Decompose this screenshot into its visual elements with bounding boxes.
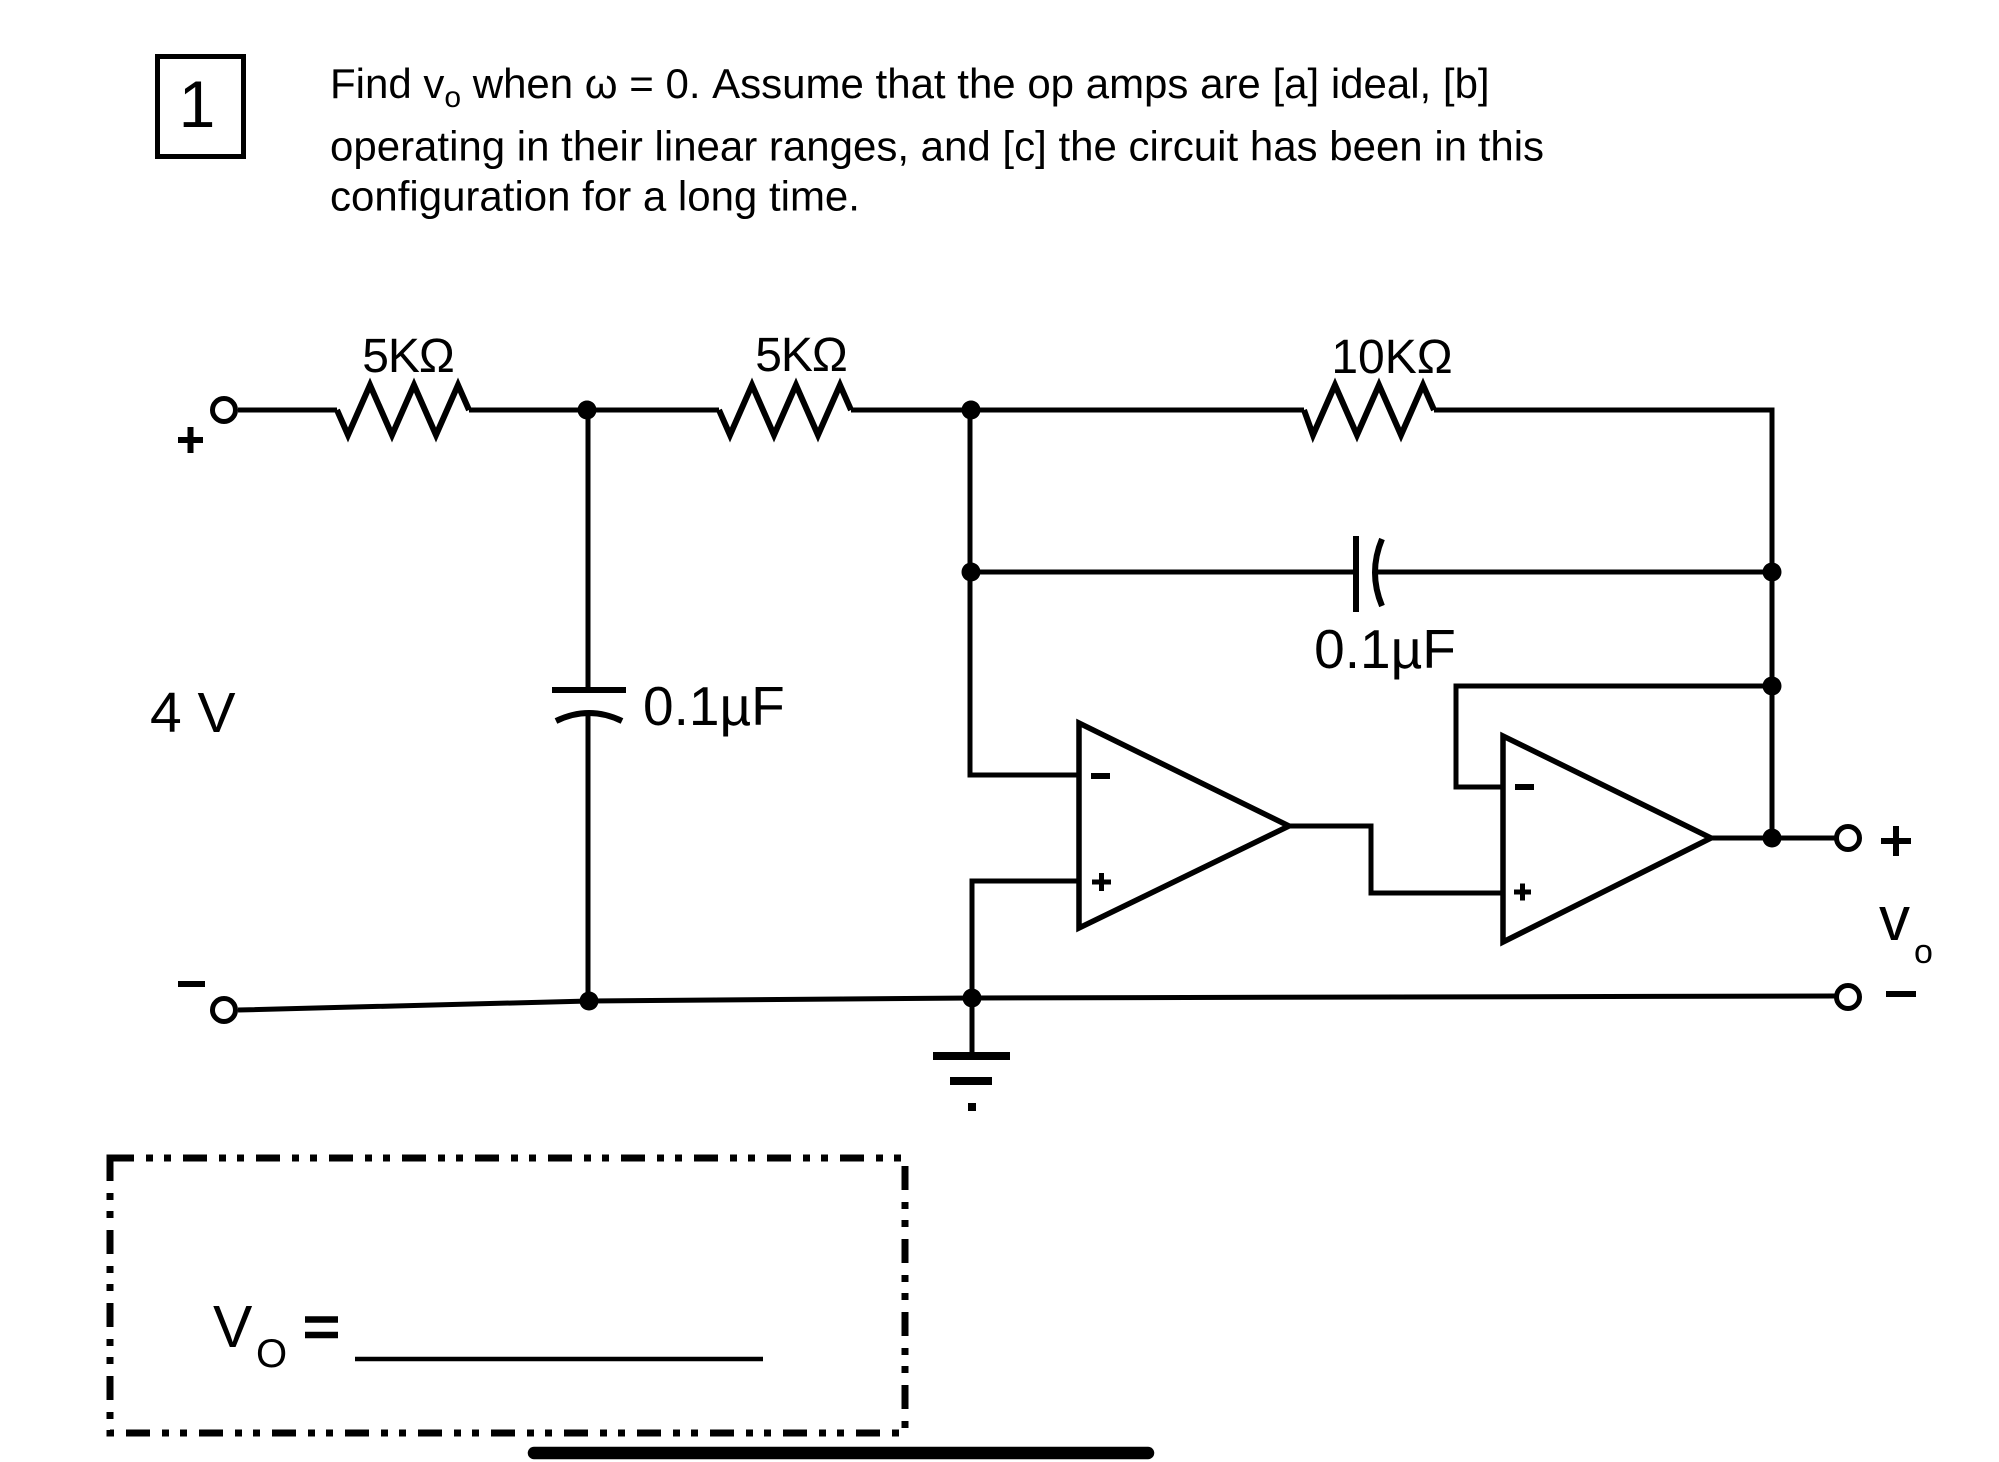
wire: R3 to right vertical rail and down to output node [1434, 410, 1772, 838]
resistor R3 (10K ohm) zigzag [1304, 385, 1434, 435]
junction bottom rail / ground / U1 + branch [963, 989, 982, 1008]
svg-text:operating in their linear rang: operating in their linear ranges, and [c… [330, 123, 1544, 170]
capacitor C2 curved right plate [1375, 539, 1382, 606]
wire: R2 to R3 through node B [851, 408, 1304, 413]
svg-text:5KΩ: 5KΩ [755, 329, 847, 382]
output - terminal circle [1837, 986, 1860, 1009]
minus sign at source bottom terminal [178, 981, 205, 987]
svg-text:O: O [256, 1332, 287, 1376]
junction node A (R1/R2/C1) [578, 401, 597, 420]
source - terminal circle [213, 999, 236, 1022]
junction right rail / feedback line [1763, 677, 1782, 696]
plus sign at output terminal [1881, 826, 1911, 856]
wire: U2 output to + output terminal [1711, 836, 1836, 841]
wire: U1 output to U2 non-inverting input [1289, 826, 1503, 893]
svg-text:v: v [1879, 885, 1910, 954]
wire: capacitor C1 bottom to ground rail [586, 716, 591, 1001]
ground symbol bar 2 [950, 1077, 992, 1085]
svg-text:0.1µF: 0.1µF [643, 675, 785, 737]
svg-text:Find vo when ω = 0. Assume tha: Find vo when ω = 0. Assume that the op a… [330, 60, 1490, 114]
wire: source + terminal to R1 [238, 408, 337, 413]
answer dashed box [110, 1158, 905, 1433]
op-amp U1 non-inverting input plus sign [1092, 873, 1111, 891]
wire: node A down to capacitor C1 top plate [586, 410, 591, 688]
op-amp U1 inverting input minus sign [1091, 773, 1110, 779]
bottom divider bar [534, 1447, 1148, 1460]
wire: U1 non-inverting input to ground rail [972, 881, 1079, 998]
wire: capacitor C2 right plate to right rail [1378, 570, 1772, 575]
op-amp U1 [1079, 723, 1289, 928]
minus sign at output terminal [1886, 991, 1916, 997]
junction right rail / output [1763, 829, 1782, 848]
svg-text:configuration for a long time.: configuration for a long time. [330, 173, 860, 220]
ground symbol bar 1 [933, 1052, 1010, 1060]
wire: node B down to U1 inverting input [970, 410, 1079, 775]
svg-text:V: V [213, 1294, 253, 1360]
junction node B2 (middle line tap) [962, 563, 981, 582]
junction right rail / C2 line [1763, 563, 1782, 582]
wire: bottom ground rail [238, 996, 1836, 1010]
wire: feedback from output node to U2 inverting input [1456, 686, 1772, 787]
capacitor C2 left plate [1353, 536, 1359, 612]
op-amp U2 inverting input minus sign [1515, 784, 1534, 790]
svg-text:4 V: 4 V [150, 681, 236, 745]
svg-text:0.1µF: 0.1µF [1314, 618, 1456, 680]
problem number box [158, 57, 244, 157]
plus sign at source terminal [178, 427, 203, 453]
ground symbol stem [970, 998, 975, 1052]
op-amp U2 non-inverting input plus sign [1514, 884, 1531, 901]
junction bottom rail / C1 [580, 992, 599, 1011]
capacitor C1 curved bottom plate [556, 713, 622, 721]
svg-text:5KΩ: 5KΩ [362, 330, 454, 383]
equals sign in answer box [305, 1320, 338, 1336]
output + terminal circle [1837, 827, 1860, 850]
junction node B (R2/R3/U1 inverting branch) [962, 401, 981, 420]
svg-text:1: 1 [179, 67, 216, 141]
op-amp U2 [1503, 736, 1711, 942]
resistor R1 (5K ohm) zigzag [337, 385, 469, 435]
wire: middle line from node B2 to capacitor C2 left plate [970, 570, 1355, 575]
svg-text:o: o [1914, 933, 1933, 971]
ground symbol dot [968, 1103, 976, 1111]
source + terminal circle [213, 399, 236, 422]
wire: R1 to R2 through node A [469, 408, 719, 413]
answer blank underline [355, 1357, 763, 1362]
resistor R2 (5K ohm) zigzag [719, 385, 851, 435]
capacitor C1 top plate [552, 687, 626, 693]
svg-text:10KΩ: 10KΩ [1331, 331, 1452, 384]
